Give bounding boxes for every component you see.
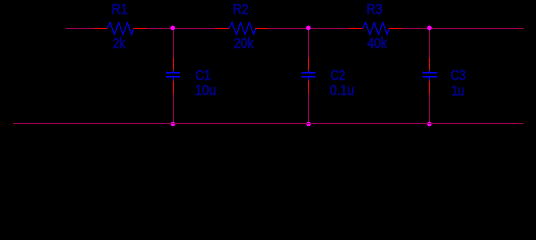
svg-text:10u: 10u: [195, 82, 216, 99]
junction node 1 bottom: [171, 122, 176, 127]
svg-text:2k: 2k: [113, 35, 126, 52]
svg-text:R2: R2: [233, 1, 249, 18]
wire C1 down to bottom rail: [173, 94, 174, 124]
wire C2 down to bottom rail: [308, 94, 309, 124]
svg-text:20k: 20k: [234, 35, 254, 52]
wire between R1 and node 1: [147, 28, 215, 29]
junction node 2 bottom: [306, 122, 311, 127]
svg-text:R3: R3: [367, 1, 383, 18]
wire node 2 down to C2: [308, 29, 309, 58]
junction node 1 top: [170, 26, 175, 31]
svg-text:1u: 1u: [452, 82, 465, 99]
wire top rail left segment: [66, 28, 94, 29]
wire bottom rail: [13, 123, 524, 124]
svg-text:R1: R1: [112, 1, 128, 18]
junction node 3 bottom: [427, 122, 432, 127]
wire node 3 down to C3: [429, 29, 430, 58]
wire C3 down to bottom rail: [429, 94, 430, 124]
wire node 1 down to C1: [173, 29, 174, 58]
capacitor C3: [423, 58, 438, 94]
wire between node 2 and R3: [268, 28, 349, 29]
capacitor C1: [166, 58, 180, 94]
svg-text:40k: 40k: [367, 35, 387, 52]
junction node 3 top: [427, 26, 432, 31]
resistor R3: [349, 23, 403, 35]
resistor R2: [215, 23, 268, 35]
capacitor C2: [302, 58, 316, 94]
wire top rail right segment: [402, 28, 524, 29]
resistor R1: [94, 23, 147, 35]
svg-text:0.1u: 0.1u: [330, 82, 354, 99]
junction node 2 top: [306, 26, 311, 31]
